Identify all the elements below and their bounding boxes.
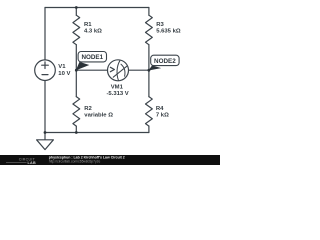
svg-text:4.3 kΩ: 4.3 kΩ [84, 28, 102, 34]
resistor R4 [146, 97, 153, 127]
svg-text:R1: R1 [84, 22, 92, 28]
svg-text:V1: V1 [58, 64, 66, 70]
svg-text:VM1: VM1 [111, 84, 124, 90]
junction bottom left [44, 131, 47, 134]
svg-text:NODE2: NODE2 [154, 58, 176, 65]
svg-text:R4: R4 [156, 106, 164, 112]
svg-text:10 V: 10 V [58, 71, 70, 77]
resistor R3 [146, 15, 153, 45]
wire top horizontal [45, 7, 149, 9]
node NODE2 flag [148, 65, 161, 70]
wire bottom horizontal [45, 132, 149, 134]
wire left branch vertical [44, 8, 46, 133]
junction top [75, 6, 78, 9]
svg-text:5.635 kΩ: 5.635 kΩ [156, 28, 181, 34]
svg-text:NODE1: NODE1 [81, 54, 103, 61]
node NODE1 flag [76, 62, 90, 71]
svg-text:R3: R3 [156, 22, 164, 28]
svg-text:-5.313 V: -5.313 V [106, 91, 128, 97]
wire middle branch vertical [75, 8, 77, 133]
junction bottom middle [75, 131, 78, 134]
junction node1 [75, 69, 78, 72]
wire voltmeter horizontal [76, 69, 149, 71]
svg-text:R2: R2 [84, 106, 92, 112]
svg-text:http://circuitlab.com/c65w8d3p: http://circuitlab.com/c65w8d3p7y2e [49, 160, 101, 164]
svg-text:variable Ω: variable Ω [84, 113, 113, 119]
resistor R2 [73, 97, 80, 127]
ground [37, 133, 54, 150]
voltage source V1 [35, 60, 56, 81]
attribution bar [0, 155, 220, 165]
svg-text:LAB: LAB [28, 161, 37, 165]
voltmeter VM1 [108, 60, 129, 81]
svg-text:7 kΩ: 7 kΩ [156, 112, 169, 118]
wire right branch vertical [148, 8, 150, 133]
resistor R1 [73, 15, 80, 45]
junction node2 [148, 69, 151, 72]
